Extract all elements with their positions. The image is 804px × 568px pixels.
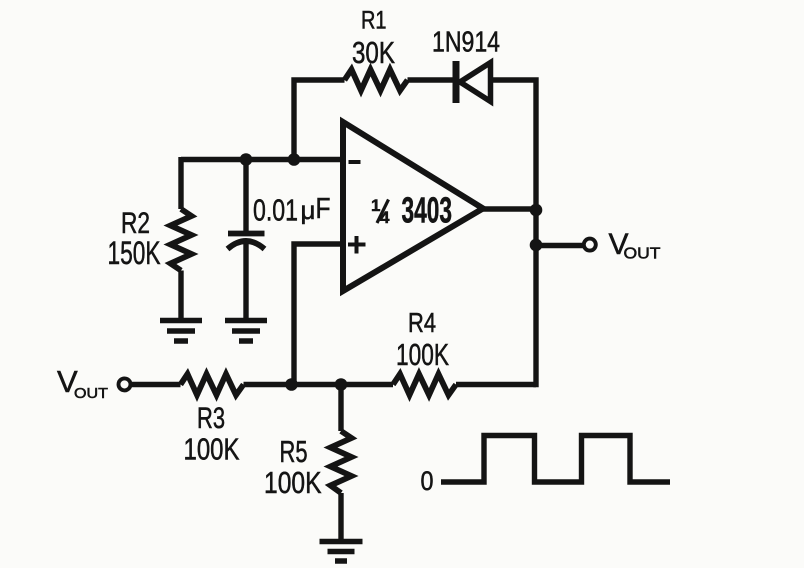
svg-text:30K: 30K [352,35,395,70]
svg-text:0: 0 [421,466,434,496]
svg-text:100K: 100K [396,337,449,372]
svg-text:F: F [316,193,331,225]
svg-text:1N914: 1N914 [432,27,500,59]
svg-text:100K: 100K [264,465,322,500]
svg-text:OUT: OUT [74,385,108,402]
svg-text:R3: R3 [197,402,225,435]
svg-text:4: 4 [380,208,390,227]
svg-text:R1: R1 [361,7,387,35]
svg-text:OUT: OUT [624,246,662,263]
svg-text:R4: R4 [408,307,436,338]
svg-text:3403: 3403 [402,190,453,231]
svg-text:0.01: 0.01 [253,193,298,228]
svg-text:150K: 150K [108,235,161,271]
svg-text:R5: R5 [280,434,308,469]
svg-text:μ: μ [301,195,316,225]
svg-text:100K: 100K [184,432,240,467]
